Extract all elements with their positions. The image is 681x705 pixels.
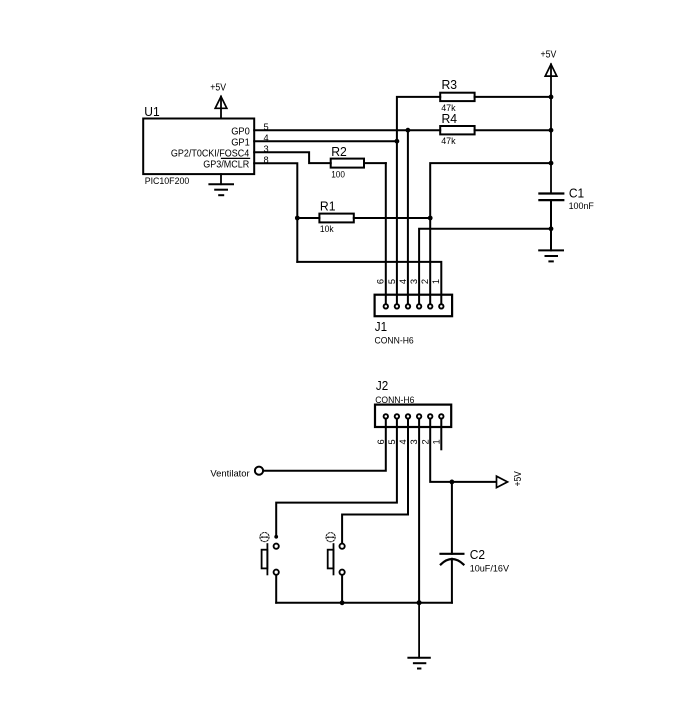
svg-text:R4: R4 (442, 111, 458, 126)
wire J2 pin6 to Ventilator (264, 419, 386, 471)
wire J2 pin1 stub (440, 419, 442, 449)
wire J1 pin1 to MCLR node (297, 262, 441, 304)
svg-text:+5V: +5V (541, 50, 557, 61)
power +5V arrow right (497, 471, 524, 488)
IC U1 PIC10F200 (143, 119, 254, 175)
resistor R1 (297, 214, 430, 223)
ground at C1 (539, 250, 563, 261)
resistor R3 (440, 93, 551, 101)
wire C1 to ground (550, 201, 552, 250)
wire J2 pin5 to switch S1 (276, 419, 397, 535)
power +5V rail top (541, 50, 557, 193)
node gnd rail / C1 (549, 226, 554, 231)
wire J1 pin5 vertical up to R3 (397, 97, 440, 304)
junction dots bottom section (340, 480, 455, 606)
node R1 right / J1.2 (428, 216, 433, 221)
node S2 / rail (340, 600, 345, 605)
svg-text:2: 2 (420, 439, 430, 444)
svg-text:10k: 10k (320, 223, 334, 234)
svg-text:R3: R3 (442, 77, 458, 92)
resistor R2 (331, 159, 386, 168)
wire GP2 pin3 to R2 (254, 152, 331, 163)
svg-text:100nF: 100nF (569, 200, 595, 211)
resistor R4 (440, 126, 551, 134)
node R4/+5V (549, 128, 554, 133)
svg-text:+5V: +5V (210, 82, 226, 93)
svg-text:1: 1 (431, 439, 441, 444)
svg-text:4: 4 (398, 439, 408, 444)
svg-text:GP1: GP1 (231, 138, 250, 149)
node GP1/J1.5 (395, 139, 400, 144)
svg-text:U1: U1 (144, 104, 159, 119)
junction dots top section (295, 95, 553, 232)
power +5V at U1 (210, 82, 227, 118)
svg-text:Ventilator: Ventilator (210, 467, 249, 478)
svg-text:3: 3 (409, 279, 419, 284)
node rail / ground (417, 600, 422, 605)
svg-text:4: 4 (398, 279, 408, 284)
capacitor C2 polarized (441, 482, 464, 603)
svg-text:PIC10F200: PIC10F200 (145, 175, 190, 186)
svg-text:R2: R2 (331, 144, 347, 159)
svg-text:+5V: +5V (513, 471, 524, 487)
node GP0/R4/J1.4 (406, 128, 411, 133)
wire J1 pin2 vertical and MCLR pullup to +5V rail (430, 163, 551, 304)
svg-text:R1: R1 (320, 198, 336, 213)
svg-text:C2: C2 (470, 547, 485, 562)
wire J1 pin3 to ground rail of C1 (419, 229, 551, 304)
svg-text:5: 5 (387, 439, 397, 444)
wire J2 pin2 to +5V (430, 419, 496, 482)
wire bottom ground rail (276, 602, 452, 604)
node R3/+5V (549, 95, 554, 100)
wire J1 pin6 vertical (385, 163, 387, 304)
wire S2 bottom to rail (341, 575, 343, 602)
ground under U1 (209, 174, 233, 195)
switch S1 pushbutton (260, 533, 279, 575)
svg-text:GP0: GP0 (231, 127, 250, 138)
svg-text:GP3/MCLR: GP3/MCLR (203, 160, 249, 171)
wire GP0 pin5 to R4 (254, 129, 440, 131)
node R1 left / MCLR (295, 216, 300, 221)
connector J1 (375, 295, 453, 317)
wire J2 pin3 to ground (418, 419, 420, 603)
pin name GP3/MCLR with MCLR overline (203, 158, 249, 170)
svg-text:10uF/16V: 10uF/16V (470, 562, 510, 573)
svg-text:2: 2 (420, 279, 430, 284)
svg-text:100: 100 (331, 169, 345, 180)
wire GP3 pin8 / MCLR node (254, 163, 297, 262)
svg-text:47k: 47k (441, 135, 456, 146)
svg-text:5: 5 (387, 279, 397, 284)
ground at J2 rail (408, 658, 429, 669)
wire J2 pin4 to switch S2 (342, 419, 408, 543)
wire S1 bottom to rail (275, 575, 277, 602)
wire GP1 pin4 (254, 140, 397, 142)
J2 pin numbers rotated (376, 439, 442, 444)
svg-text:CONN-H6: CONN-H6 (375, 335, 414, 346)
connector J2 (375, 405, 451, 427)
capacitor C1 (539, 194, 563, 201)
svg-text:6: 6 (376, 279, 386, 284)
switch S2 pushbutton (326, 533, 345, 575)
terminal Ventilator (255, 467, 263, 475)
svg-text:J2: J2 (376, 378, 388, 393)
svg-text:J1: J1 (375, 319, 387, 334)
J1 pin numbers rotated (376, 279, 442, 284)
wire J1 pin4 vertical (407, 130, 409, 304)
svg-text:1: 1 (431, 279, 441, 284)
svg-text:C1: C1 (569, 185, 584, 200)
svg-text:6: 6 (376, 439, 386, 444)
svg-text:CONN-H6: CONN-H6 (375, 394, 414, 405)
wire rail to ground J2 (418, 603, 420, 658)
node MCLR pullup/+5V (549, 161, 554, 166)
svg-text:3: 3 (409, 439, 419, 444)
node J2.2/+5V/C2 (450, 480, 455, 485)
